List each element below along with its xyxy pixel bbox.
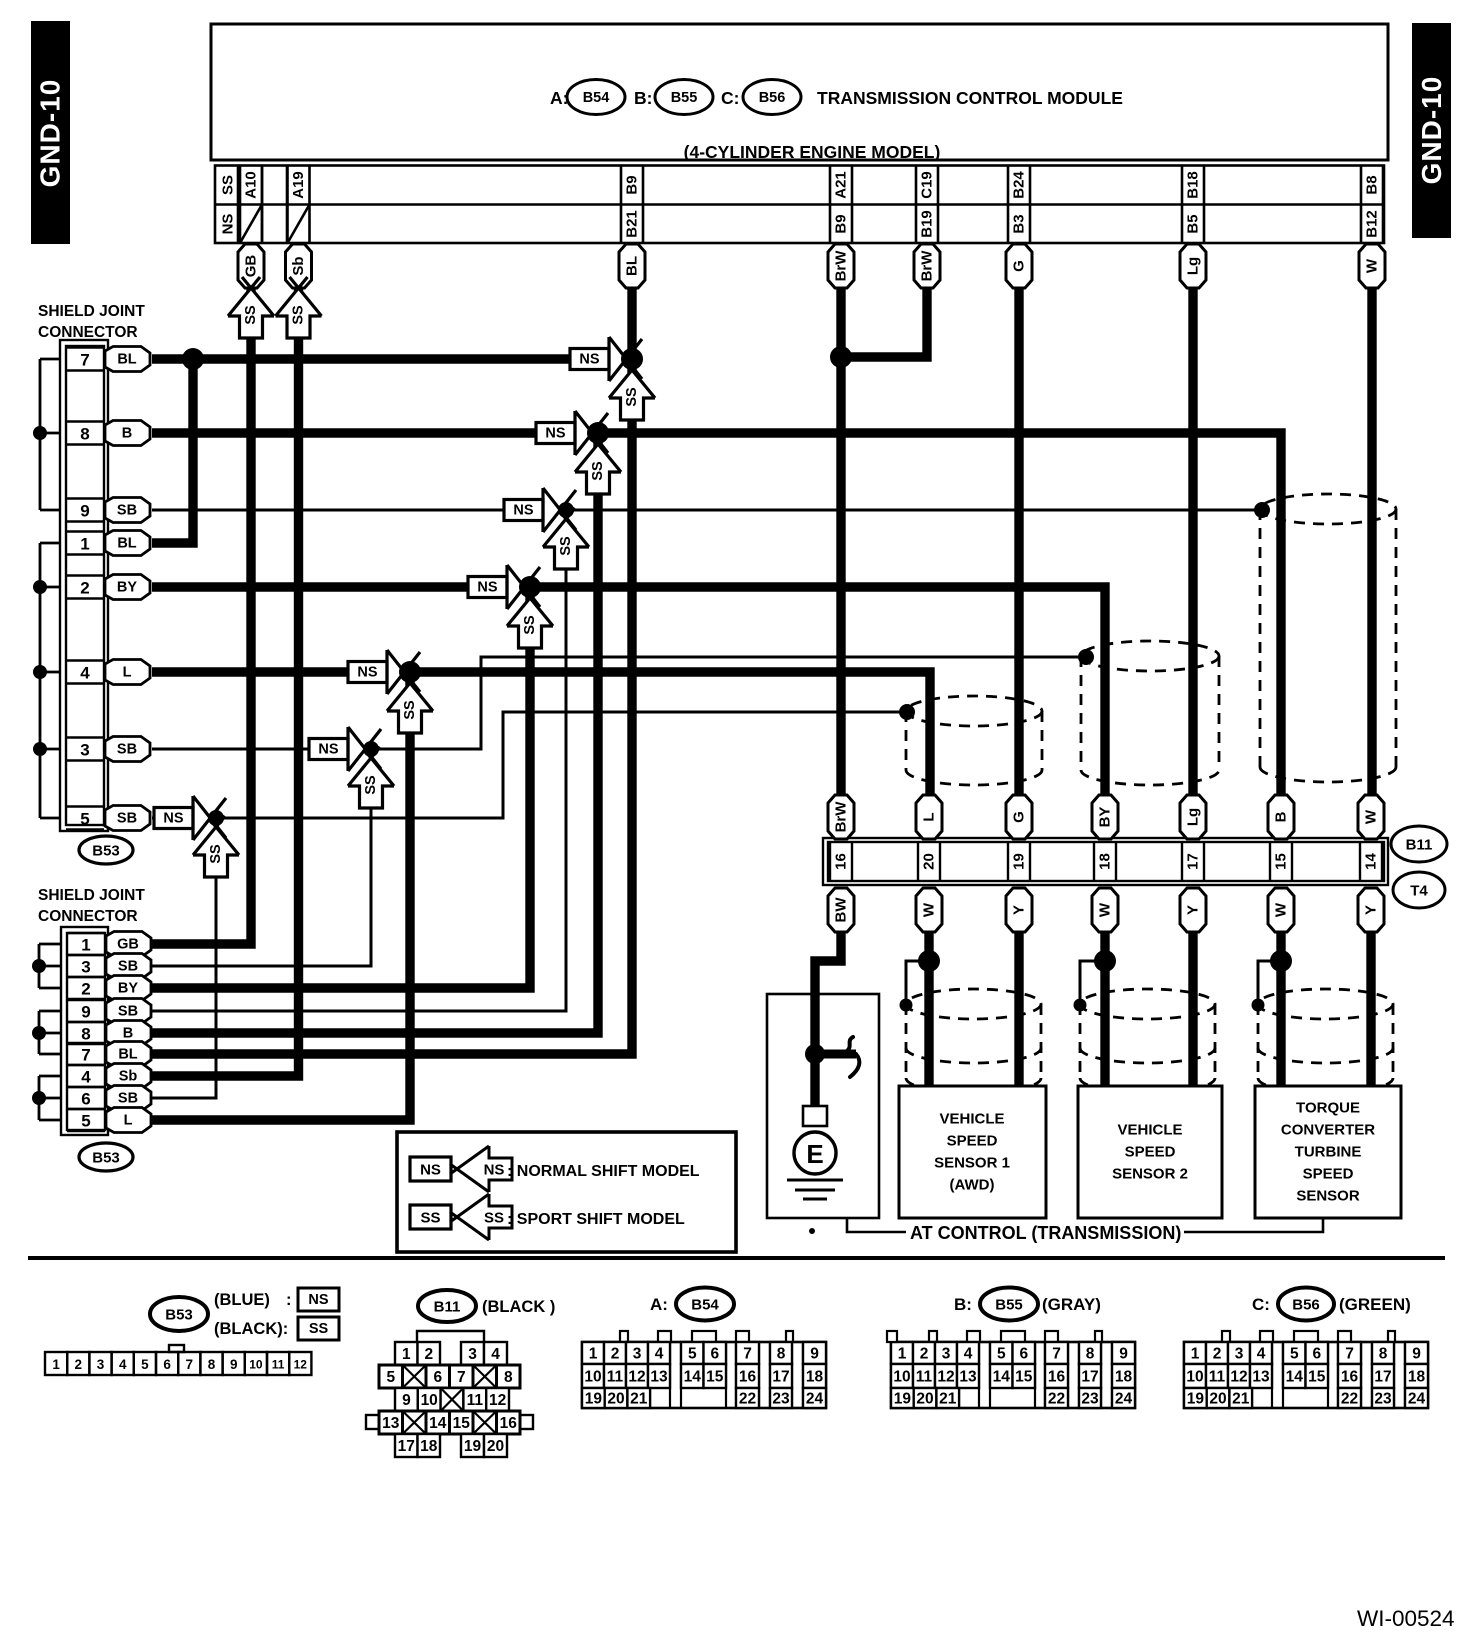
shield drain sensor1 [906, 961, 929, 1004]
connector 2 bracket 1 [39, 944, 61, 988]
junction dot sensor3 W [1270, 950, 1292, 972]
svg-text:16: 16 [1341, 1369, 1359, 1386]
svg-text:16: 16 [500, 1415, 518, 1432]
svg-text:SHIELD JOINT: SHIELD JOINT [38, 887, 145, 904]
svg-text:9: 9 [81, 1003, 90, 1022]
svg-text:W: W [1364, 258, 1381, 273]
svg-text:(AWD): (AWD) [950, 1177, 995, 1194]
svg-text:B56: B56 [1292, 1297, 1320, 1314]
connector 1 bracket B [40, 543, 60, 818]
svg-text:1: 1 [80, 535, 89, 554]
connector 1 capsule L pin 4 [105, 660, 150, 685]
wire W sensor2 [1100, 932, 1109, 1086]
svg-text:13: 13 [650, 1369, 668, 1386]
svg-text:BY: BY [117, 580, 137, 596]
svg-text:18: 18 [806, 1369, 824, 1386]
svg-text:NS: NS [308, 1292, 328, 1308]
svg-text:16: 16 [833, 853, 850, 870]
svg-text:8: 8 [504, 1369, 513, 1386]
junction dot BL branch [182, 348, 204, 370]
connector 2 bracket 2 [39, 1011, 61, 1054]
svg-text:BL: BL [117, 536, 136, 552]
SS arrow pin5 junction [193, 827, 239, 855]
svg-text:Y: Y [1185, 905, 1202, 915]
svg-text:8: 8 [80, 425, 89, 444]
svg-text:NS: NS [357, 665, 377, 681]
svg-text:B53: B53 [165, 1307, 193, 1324]
svg-text:15: 15 [1273, 853, 1290, 870]
svg-text:18: 18 [420, 1438, 438, 1455]
capsule W below T4 pin 20 [916, 888, 942, 932]
connector 1 capsule SB pin 9 [105, 498, 150, 523]
svg-text:B56: B56 [759, 90, 786, 106]
svg-text:3: 3 [97, 1357, 105, 1372]
svg-text:20: 20 [1209, 1391, 1226, 1408]
svg-text:19: 19 [585, 1391, 603, 1408]
svg-text:11: 11 [607, 1369, 624, 1386]
svg-text:B: B [123, 1026, 133, 1042]
svg-text:21: 21 [939, 1391, 957, 1408]
svg-text:SS: SS [420, 1210, 440, 1227]
connector 2 capsule BL pin 7 [106, 1042, 151, 1067]
shield cylinder A [906, 696, 1042, 785]
svg-text:18: 18 [1115, 1369, 1133, 1386]
svg-text:AT CONTROL (TRANSMISSION): AT CONTROL (TRANSMISSION) [910, 1223, 1181, 1243]
svg-text:NS: NS [220, 214, 237, 235]
svg-text:L: L [124, 1113, 133, 1129]
svg-text:7: 7 [80, 351, 89, 370]
junction dot sensor2 W [1094, 950, 1116, 972]
svg-text:21: 21 [630, 1391, 648, 1408]
svg-text:18: 18 [1408, 1369, 1426, 1386]
wire Y sensor3 [1366, 932, 1375, 1086]
svg-text:B8: B8 [1364, 175, 1381, 194]
junction dot SB9 [558, 502, 574, 518]
svg-text:15: 15 [453, 1415, 471, 1432]
svg-text:2: 2 [424, 1346, 433, 1363]
B11 pin grid [417, 1331, 484, 1342]
wire G net [1014, 288, 1023, 796]
svg-text:SENSOR 1: SENSOR 1 [934, 1155, 1010, 1172]
svg-text:(4-CYLINDER ENGINE MODEL): (4-CYLINDER ENGINE MODEL) [684, 142, 941, 162]
capsule BrW at x=927 [914, 244, 940, 288]
svg-text:3: 3 [80, 741, 89, 760]
wire Y sensor1 [1014, 932, 1023, 1086]
svg-text:W: W [921, 902, 938, 917]
svg-text:8: 8 [1086, 1346, 1095, 1363]
svg-text:B12: B12 [1364, 210, 1381, 238]
svg-text:23: 23 [772, 1391, 790, 1408]
svg-text:23: 23 [1374, 1391, 1392, 1408]
capsule B above T4 pin 15 [1268, 795, 1294, 839]
svg-text:B: B [122, 426, 132, 442]
svg-text:7: 7 [1345, 1346, 1354, 1363]
svg-text:Sb: Sb [290, 256, 307, 275]
capsule L above T4 pin 20 [916, 795, 942, 839]
wire Lg net [1188, 288, 1197, 796]
svg-text:14: 14 [429, 1415, 447, 1432]
svg-text:SS: SS [590, 461, 606, 481]
B53 pin row [45, 1345, 311, 1375]
svg-text:B3: B3 [1011, 214, 1028, 233]
svg-text:18: 18 [1097, 853, 1114, 870]
svg-text:20: 20 [607, 1391, 624, 1408]
svg-text:SS: SS [522, 615, 538, 635]
svg-text:22: 22 [1048, 1391, 1065, 1408]
svg-text:9: 9 [1119, 1346, 1128, 1363]
capsule BL at x=632 [619, 244, 645, 288]
ground circle E [794, 1132, 836, 1174]
svg-text:7: 7 [81, 1046, 90, 1065]
svg-text:Y: Y [1011, 905, 1028, 915]
svg-text:NS: NS [163, 811, 183, 827]
wire W sensor3 [1276, 932, 1285, 1086]
svg-text:16: 16 [1048, 1369, 1066, 1386]
svg-text:2: 2 [611, 1346, 620, 1363]
svg-text:7: 7 [186, 1357, 194, 1372]
svg-text:B9: B9 [833, 214, 850, 233]
ground enclosure box [767, 994, 879, 1218]
svg-text:B54: B54 [583, 90, 610, 106]
connector 1 capsule BL pin 7 [105, 347, 150, 372]
shield cylinder C [1260, 494, 1396, 782]
svg-text:2: 2 [920, 1346, 929, 1363]
svg-text:B:: B: [634, 88, 652, 108]
capsule W below T4 pin 15 [1268, 888, 1294, 932]
junction dot BL [621, 348, 643, 370]
svg-text:20: 20 [916, 1391, 933, 1408]
svg-text:SENSOR 2: SENSOR 2 [1112, 1166, 1188, 1183]
wire W sensor1 [924, 932, 933, 1086]
ground drain hook [815, 1050, 856, 1059]
svg-text:4: 4 [655, 1346, 664, 1363]
svg-text:12: 12 [294, 1358, 308, 1372]
AT control bracket [847, 1218, 1323, 1232]
svg-text:5: 5 [386, 1369, 395, 1386]
shield cylinder E (sensor 2) [1080, 989, 1215, 1093]
shield drain sensor3 [1258, 961, 1281, 1004]
svg-text:B55: B55 [995, 1297, 1023, 1314]
svg-text:1: 1 [1191, 1346, 1200, 1363]
svg-text:17: 17 [398, 1438, 415, 1455]
connector 2 capsule BY pin 2 [106, 976, 151, 1001]
vehicle speed sensor 2 box [1078, 1086, 1222, 1218]
legend SS row [410, 1205, 451, 1229]
svg-text:8: 8 [81, 1025, 90, 1044]
svg-text:15: 15 [706, 1369, 724, 1386]
svg-text:E: E [806, 1139, 823, 1169]
svg-text:B:: B: [954, 1295, 972, 1314]
svg-text:SS: SS [309, 1321, 329, 1337]
svg-text:14: 14 [1363, 853, 1380, 870]
shield drain sensor2 [1080, 961, 1105, 1004]
svg-text:NS: NS [579, 352, 599, 368]
NS arrow pin8 junction [575, 411, 593, 455]
capsule Lg above T4 pin 17 [1180, 795, 1206, 839]
svg-text:5: 5 [1290, 1346, 1299, 1363]
connector 2 capsule SB pin 9 [106, 999, 151, 1024]
svg-text:2: 2 [80, 579, 89, 598]
svg-text:24: 24 [806, 1391, 824, 1408]
capsule W at x=1372 [1359, 244, 1385, 288]
junction dot BrW [830, 346, 852, 368]
svg-text:9: 9 [230, 1357, 238, 1372]
svg-text:22: 22 [739, 1391, 756, 1408]
TCM connector pin strip [215, 166, 1384, 244]
svg-text:(GREEN): (GREEN) [1339, 1295, 1411, 1314]
svg-text:12: 12 [628, 1369, 645, 1386]
svg-text:2: 2 [1213, 1346, 1222, 1363]
capsule Y below T4 pin 17 [1180, 888, 1206, 932]
svg-text:1: 1 [81, 936, 90, 955]
connector 1 capsule B pin 8 [105, 421, 150, 446]
svg-text:4: 4 [80, 664, 90, 683]
svg-text:5: 5 [688, 1346, 697, 1363]
capsule G above T4 pin 19 [1006, 795, 1032, 839]
svg-text:3: 3 [468, 1346, 477, 1363]
SS arrow under Sb [276, 288, 322, 316]
svg-text:SS: SS [484, 1210, 504, 1227]
wire Y sensor2 [1188, 932, 1197, 1086]
connector 1 capsule BY pin 2 [105, 575, 150, 600]
connector 2 capsule B pin 8 [106, 1021, 151, 1046]
svg-text:B55: B55 [671, 90, 698, 106]
svg-text:11: 11 [1209, 1369, 1226, 1386]
NS arrow pin3 junction [348, 727, 366, 771]
wire BL net (pin7/B21) [152, 354, 632, 363]
svg-text:BL: BL [624, 256, 641, 276]
svg-text:10: 10 [1186, 1369, 1203, 1386]
SS arrow pin2 junction [507, 598, 553, 626]
torque converter turbine speed sensor box [1255, 1086, 1401, 1218]
wire GB net [152, 288, 251, 944]
svg-text:9: 9 [810, 1346, 819, 1363]
svg-text:WI-00524: WI-00524 [1357, 1606, 1455, 1631]
B11 oval label [1391, 826, 1447, 862]
stray dot [809, 1228, 815, 1234]
svg-text:NS: NS [318, 742, 338, 758]
svg-text:NS: NS [513, 503, 533, 519]
svg-text:GB: GB [243, 255, 260, 278]
shield dot sensor1 [900, 999, 913, 1012]
svg-text:SPEED: SPEED [947, 1133, 998, 1150]
capsule BrW at x=841 [828, 244, 854, 288]
svg-text:12: 12 [1230, 1369, 1247, 1386]
right GND-10 banner [1412, 23, 1451, 238]
svg-text:14: 14 [684, 1369, 702, 1386]
svg-text:SB: SB [117, 811, 137, 827]
svg-text:SS: SS [208, 844, 224, 864]
B11/T4 connector strip [823, 838, 1388, 885]
connector 2 capsule Sb pin 4 [106, 1064, 151, 1089]
shield dot sensor2 [1074, 999, 1087, 1012]
svg-text:19: 19 [894, 1391, 912, 1408]
svg-text:(BLACK ): (BLACK ) [482, 1298, 555, 1316]
svg-text:5: 5 [81, 1112, 90, 1131]
svg-text:3: 3 [633, 1346, 642, 1363]
svg-text:3: 3 [81, 958, 90, 977]
capsule W below T4 pin 18 [1092, 888, 1118, 932]
B55 pin grid [891, 1342, 1135, 1408]
svg-text:14: 14 [1286, 1369, 1304, 1386]
svg-text:15: 15 [1308, 1369, 1326, 1386]
svg-text:22: 22 [1341, 1391, 1358, 1408]
svg-text:SENSOR: SENSOR [1296, 1188, 1360, 1205]
capsule W above T4 pin 14 [1358, 795, 1384, 839]
junction dot B [587, 422, 609, 444]
svg-text:NS: NS [484, 1162, 505, 1179]
NS arrow pin9 junction [543, 488, 561, 532]
svg-text:SB: SB [117, 503, 137, 519]
svg-text:24: 24 [1115, 1391, 1133, 1408]
svg-text:4: 4 [81, 1068, 91, 1087]
wire BW to ground [815, 932, 841, 1106]
svg-text:GB: GB [117, 937, 139, 953]
svg-text:17: 17 [1374, 1369, 1391, 1386]
wire SB net (pin3 shield drain) [152, 657, 1086, 749]
svg-text:BL: BL [118, 1047, 137, 1063]
svg-text:CONNECTOR: CONNECTOR [38, 908, 138, 925]
svg-text:BrW: BrW [919, 250, 936, 282]
shield cylinder B [1081, 641, 1219, 785]
connector 1 B53 oval [79, 836, 133, 864]
svg-text:B: B [1273, 811, 1290, 822]
svg-text:SS: SS [243, 305, 259, 325]
connector 2 capsule SB pin 3 [106, 954, 151, 979]
svg-text:16: 16 [739, 1369, 757, 1386]
svg-text:10: 10 [249, 1358, 263, 1372]
SS arrow pin7 junction [609, 370, 655, 398]
svg-text:B53: B53 [92, 1150, 120, 1167]
svg-text:BY: BY [118, 981, 138, 997]
svg-text:B11: B11 [434, 1299, 461, 1316]
wire B net (pin8/B) [152, 433, 1281, 796]
svg-text:4: 4 [964, 1346, 973, 1363]
wire BrW net [836, 288, 845, 796]
svg-text:CONNECTOR: CONNECTOR [38, 324, 138, 341]
svg-text:3: 3 [942, 1346, 951, 1363]
connector 2 capsule SB pin 6 [106, 1086, 151, 1111]
svg-text:11: 11 [467, 1392, 484, 1409]
svg-text:11: 11 [272, 1358, 285, 1372]
svg-text:BW: BW [833, 897, 850, 923]
svg-text:VEHICLE: VEHICLE [939, 1111, 1004, 1128]
svg-text:SS: SS [291, 305, 307, 325]
svg-text:Sb: Sb [119, 1069, 138, 1085]
svg-text:BL: BL [117, 352, 136, 368]
capsule Lg at x=1193 [1180, 244, 1206, 288]
svg-text:9: 9 [1412, 1346, 1421, 1363]
wire BL branch to pin1 [152, 359, 193, 543]
SS arrow under GB [228, 288, 274, 316]
NS arrow pin5 junction [193, 796, 211, 840]
svg-text:23: 23 [1081, 1391, 1099, 1408]
shield dot cyl A [899, 704, 915, 720]
capsule BW below T4 pin 16 [828, 888, 854, 932]
svg-text:TRANSMISSION CONTROL MODULE: TRANSMISSION CONTROL MODULE [817, 88, 1123, 108]
svg-text:15: 15 [1015, 1369, 1033, 1386]
svg-text:13: 13 [1252, 1369, 1270, 1386]
junction dot sensor1 W [918, 950, 940, 972]
svg-text:L: L [921, 812, 938, 821]
svg-text:B18: B18 [1185, 171, 1202, 199]
svg-text:6: 6 [81, 1090, 90, 1109]
SS arrow pin4 junction [387, 683, 433, 711]
svg-text:7: 7 [457, 1369, 466, 1386]
svg-text:G: G [1011, 811, 1028, 823]
svg-text:B11: B11 [1406, 837, 1433, 854]
junction dot L [399, 661, 421, 683]
svg-text:7: 7 [743, 1346, 752, 1363]
svg-text:NS: NS [545, 426, 565, 442]
shield joint connector 1 body [60, 340, 108, 831]
svg-text:G: G [1011, 260, 1028, 272]
SS arrow pin8 junction [575, 444, 621, 472]
svg-text:17: 17 [1185, 853, 1202, 870]
svg-text:3: 3 [1235, 1346, 1244, 1363]
B11 oval (legend) [418, 1290, 476, 1322]
svg-text:(GRAY): (GRAY) [1042, 1295, 1101, 1314]
connector 1 capsule BL pin 1 [105, 531, 150, 556]
svg-text:9: 9 [80, 502, 89, 521]
svg-text:A:: A: [650, 1295, 668, 1314]
svg-text:SB: SB [118, 1091, 138, 1107]
svg-text:SS: SS [402, 700, 418, 720]
svg-text:VEHICLE: VEHICLE [1117, 1122, 1182, 1139]
svg-text:1: 1 [898, 1346, 907, 1363]
svg-text:Y: Y [1363, 905, 1380, 915]
svg-text:2: 2 [75, 1357, 83, 1372]
svg-text:Lg: Lg [1185, 808, 1202, 826]
svg-text:W: W [1273, 902, 1290, 917]
svg-text:CONVERTER: CONVERTER [1281, 1122, 1375, 1139]
svg-text:10: 10 [421, 1392, 438, 1409]
capsule Y below T4 pin 19 [1006, 888, 1032, 932]
svg-text:Lg: Lg [1185, 257, 1202, 275]
svg-text:: NORMAL SHIFT MODEL: : NORMAL SHIFT MODEL [507, 1163, 700, 1180]
svg-text:SHIELD JOINT: SHIELD JOINT [38, 303, 145, 320]
svg-text:6: 6 [1312, 1346, 1321, 1363]
svg-text:TURBINE: TURBINE [1295, 1144, 1362, 1161]
shield cylinder D (sensor 1) [906, 989, 1041, 1093]
svg-text:4: 4 [119, 1357, 127, 1372]
junction dot SB5 [208, 810, 224, 826]
svg-text:5: 5 [997, 1346, 1006, 1363]
svg-text:C:: C: [1252, 1295, 1270, 1314]
B56 pin grid [1184, 1342, 1428, 1408]
svg-text:6: 6 [710, 1346, 719, 1363]
svg-text:NS: NS [420, 1162, 441, 1179]
svg-text:13: 13 [959, 1369, 977, 1386]
SS arrow pin3 junction [348, 758, 394, 786]
svg-text:14: 14 [993, 1369, 1011, 1386]
svg-text:SB: SB [117, 742, 137, 758]
separator line [28, 1256, 1445, 1260]
shield dot cyl C [1254, 502, 1270, 518]
svg-text:17: 17 [772, 1369, 789, 1386]
svg-text:L: L [123, 665, 132, 681]
svg-text:8: 8 [1379, 1346, 1388, 1363]
svg-text:SS: SS [558, 536, 574, 556]
wire W net [1367, 288, 1376, 796]
svg-text:B9: B9 [624, 175, 641, 194]
svg-text:A10: A10 [243, 171, 260, 199]
legend box [397, 1132, 736, 1252]
svg-text:9: 9 [402, 1392, 411, 1409]
svg-text:2: 2 [81, 980, 90, 999]
NS arrow pin4 junction [387, 650, 405, 694]
svg-text:SB: SB [118, 959, 138, 975]
